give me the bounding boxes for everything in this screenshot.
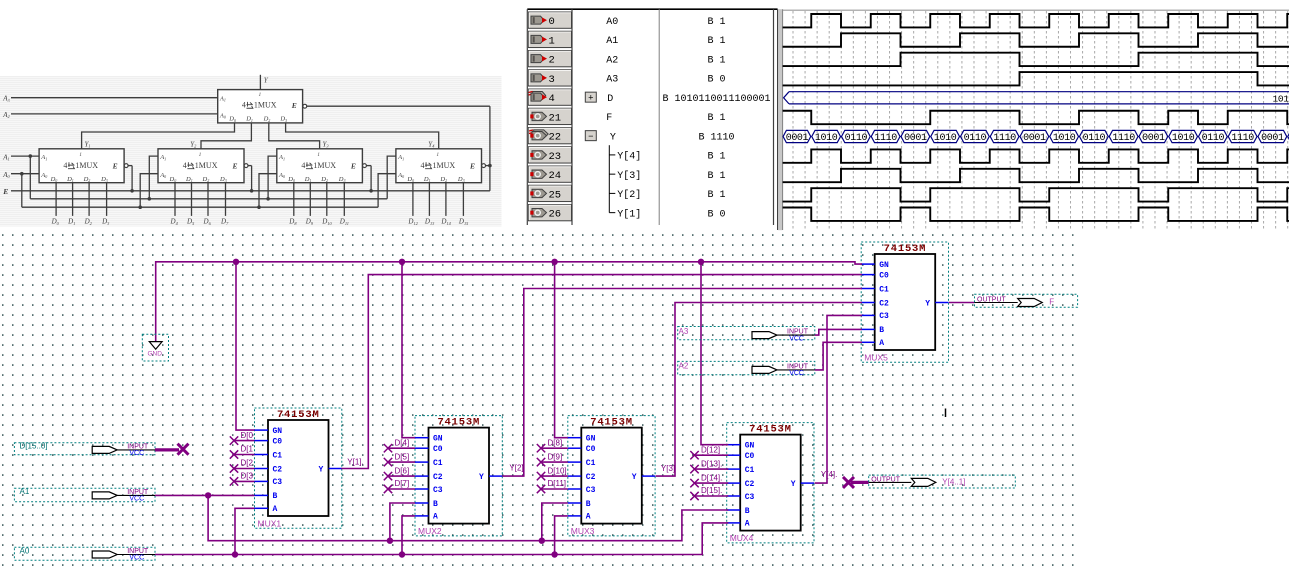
svg-text:C2: C2 <box>433 473 443 482</box>
svg-text:B 1110: B 1110 <box>698 132 734 143</box>
svg-text:A3: A3 <box>606 75 618 86</box>
svg-text:A3: A3 <box>679 327 689 336</box>
svg-text:VCC: VCC <box>789 335 804 342</box>
svg-text:B: B <box>586 500 591 509</box>
svg-text:1010: 1010 <box>1053 133 1076 144</box>
svg-text:D[6]: D[6] <box>395 466 410 475</box>
svg-text:C0: C0 <box>745 452 755 461</box>
svg-text:D[1: D[1 <box>241 445 254 454</box>
svg-text:101011: 101011 <box>1273 93 1289 104</box>
svg-text:MUX4: MUX4 <box>730 533 754 543</box>
svg-text:3: 3 <box>549 74 555 86</box>
svg-text:2: 2 <box>549 55 555 67</box>
svg-text:25: 25 <box>549 189 562 201</box>
svg-text:C1: C1 <box>433 459 443 468</box>
svg-text:0110: 0110 <box>1202 133 1225 144</box>
svg-text:Y[1].: Y[1]. <box>347 458 363 467</box>
svg-text:VCC: VCC <box>789 370 804 377</box>
svg-text:4: 4 <box>301 161 305 170</box>
svg-text:F: F <box>1049 298 1054 307</box>
svg-text:23: 23 <box>549 151 562 163</box>
svg-text:B 1: B 1 <box>707 152 725 163</box>
svg-text:B 0: B 0 <box>707 75 725 86</box>
svg-text:Y: Y <box>319 466 324 475</box>
svg-text:A0: A0 <box>606 17 618 28</box>
svg-text:D[7]: D[7] <box>395 479 410 488</box>
svg-text:Y: Y <box>925 300 930 309</box>
svg-text:0110: 0110 <box>845 133 868 144</box>
svg-text:F: F <box>606 113 612 124</box>
svg-text:1: 1 <box>549 35 555 47</box>
svg-text:4: 4 <box>549 93 555 105</box>
svg-text:Y: Y <box>791 480 796 489</box>
svg-text:Y: Y <box>479 473 484 482</box>
svg-text:1MUX: 1MUX <box>313 161 336 170</box>
svg-text:C2: C2 <box>586 473 596 482</box>
svg-text:GN: GN <box>745 442 755 451</box>
svg-text:Y: Y <box>632 473 637 482</box>
svg-text:B: B <box>433 500 438 509</box>
svg-text:B 1: B 1 <box>707 17 725 28</box>
svg-text:A: A <box>586 513 591 522</box>
svg-text:E: E <box>291 101 297 110</box>
svg-text:Y[2]: Y[2] <box>509 463 523 472</box>
svg-text:D[15..0]: D[15..0] <box>20 442 48 451</box>
svg-text:Y[1]: Y[1] <box>617 208 641 220</box>
svg-text:1MUX: 1MUX <box>75 161 98 170</box>
svg-text:C1: C1 <box>586 459 596 468</box>
svg-text:+: + <box>588 93 593 103</box>
svg-text:C1: C1 <box>879 285 889 294</box>
svg-text:Y: Y <box>610 132 616 143</box>
svg-text:1: 1 <box>317 153 320 158</box>
svg-text:1MUX: 1MUX <box>433 161 456 170</box>
svg-text:74153M: 74153M <box>884 243 927 255</box>
svg-text:0: 0 <box>549 16 555 28</box>
svg-text:Y[4]: Y[4] <box>617 151 641 163</box>
svg-text:C0: C0 <box>433 445 443 454</box>
svg-text:C2: C2 <box>745 480 755 489</box>
svg-text:C3: C3 <box>586 486 596 495</box>
svg-text:E: E <box>469 161 475 170</box>
svg-text:0110: 0110 <box>964 133 987 144</box>
svg-text:A1: A1 <box>606 36 618 47</box>
svg-text:GN: GN <box>433 435 443 444</box>
svg-text:B: B <box>879 326 884 335</box>
svg-text:C3: C3 <box>433 486 443 495</box>
svg-text:D[8]: D[8] <box>548 438 563 447</box>
svg-text:1MUX: 1MUX <box>254 101 277 110</box>
svg-text:Y[2]: Y[2] <box>617 189 641 201</box>
svg-text:C1: C1 <box>273 451 283 460</box>
svg-text:D[9]: D[9] <box>548 452 563 461</box>
svg-text:MUX2: MUX2 <box>418 526 442 536</box>
svg-text:C1: C1 <box>745 466 755 475</box>
svg-text:A: A <box>745 520 750 529</box>
svg-text:D[2: D[2 <box>241 459 254 468</box>
svg-text:74153M: 74153M <box>437 417 480 429</box>
svg-text:A: A <box>879 339 884 348</box>
svg-text:GN: GN <box>273 427 283 436</box>
svg-text:A0: A0 <box>20 546 30 555</box>
svg-text:1110: 1110 <box>1112 133 1135 144</box>
svg-text:D[12]: D[12] <box>701 445 720 454</box>
svg-text:74153M: 74153M <box>277 409 320 421</box>
svg-text:E: E <box>350 161 356 170</box>
svg-text:1110: 1110 <box>993 133 1016 144</box>
svg-text:E: E <box>232 161 238 170</box>
svg-text:D[15].: D[15]. <box>701 486 722 495</box>
svg-text:74153M: 74153M <box>590 417 633 429</box>
svg-text:B 1: B 1 <box>707 171 725 182</box>
svg-text:A1: A1 <box>20 487 30 496</box>
svg-text:B 1: B 1 <box>707 190 725 201</box>
svg-text:B: B <box>273 492 278 501</box>
svg-text:B 1010110011100001: B 1010110011100001 <box>662 94 770 105</box>
svg-text:GN: GN <box>879 261 889 270</box>
svg-text:D[5]: D[5] <box>395 452 410 461</box>
svg-text:1: 1 <box>79 153 82 158</box>
svg-text:E: E <box>112 161 118 170</box>
svg-text:C3: C3 <box>273 478 283 487</box>
svg-text:C0: C0 <box>273 437 283 446</box>
svg-text:0001: 0001 <box>1261 133 1284 144</box>
svg-text:0001: 0001 <box>1023 133 1046 144</box>
svg-text:C2: C2 <box>879 299 889 308</box>
svg-text:1110: 1110 <box>1231 133 1254 144</box>
svg-text:22: 22 <box>549 132 562 144</box>
svg-text:4: 4 <box>63 161 67 170</box>
svg-text:B 0: B 0 <box>707 209 725 220</box>
svg-text:Y[3]: Y[3] <box>661 464 675 473</box>
svg-text:D[4]: D[4] <box>395 438 410 447</box>
svg-text:D[11]: D[11] <box>548 479 567 488</box>
svg-text:D[3: D[3 <box>241 472 254 481</box>
svg-text:0110: 0110 <box>1083 133 1106 144</box>
svg-text:4: 4 <box>183 161 187 170</box>
svg-text:1010: 1010 <box>815 133 838 144</box>
svg-text:1: 1 <box>437 153 440 158</box>
svg-text:OUTPUT: OUTPUT <box>871 476 901 483</box>
svg-text:Y[3]: Y[3] <box>617 170 641 182</box>
svg-text:1: 1 <box>199 153 202 158</box>
svg-text:4: 4 <box>242 101 246 110</box>
svg-text:GN: GN <box>586 435 596 444</box>
svg-text:D[10]: D[10] <box>548 466 567 475</box>
svg-text:21: 21 <box>549 112 562 124</box>
svg-text:MUX5: MUX5 <box>864 352 888 362</box>
svg-text:D[14].: D[14]. <box>701 473 722 482</box>
svg-text:A: A <box>433 513 438 522</box>
svg-text:C0: C0 <box>586 445 596 454</box>
svg-text:Y[4..1]: Y[4..1] <box>942 478 965 487</box>
svg-text:1010: 1010 <box>1172 133 1195 144</box>
svg-text:26: 26 <box>549 209 562 221</box>
svg-text:D: D <box>607 94 613 105</box>
svg-text:C0: C0 <box>879 271 889 280</box>
svg-text:GND: GND <box>148 351 163 358</box>
svg-text:0001: 0001 <box>1142 133 1165 144</box>
svg-text:D[0: D[0 <box>241 431 254 440</box>
svg-text:MUX1: MUX1 <box>258 518 282 528</box>
svg-text:74153M: 74153M <box>749 424 792 436</box>
svg-text:OUTPUT: OUTPUT <box>977 297 1007 304</box>
svg-text:E: E <box>2 187 8 196</box>
svg-text:B 1: B 1 <box>707 36 725 47</box>
svg-text:4: 4 <box>421 161 425 170</box>
svg-text:−: − <box>588 132 593 142</box>
svg-text:VCC: VCC <box>129 555 144 562</box>
svg-text:VCC: VCC <box>129 450 144 457</box>
svg-text:1: 1 <box>259 93 262 98</box>
svg-text:24: 24 <box>549 170 562 182</box>
svg-text:C3: C3 <box>879 312 889 321</box>
svg-text:1110: 1110 <box>874 133 897 144</box>
svg-text:1010: 1010 <box>934 133 957 144</box>
svg-text:0001: 0001 <box>904 133 927 144</box>
svg-text:VCC: VCC <box>129 496 144 503</box>
svg-text:1MUX: 1MUX <box>195 161 218 170</box>
svg-text:A2: A2 <box>606 55 618 66</box>
svg-text:C2: C2 <box>273 465 283 474</box>
svg-text:MUX3: MUX3 <box>571 526 595 536</box>
svg-text:Y[4].: Y[4]. <box>821 470 837 479</box>
svg-text:A2: A2 <box>679 362 689 371</box>
svg-text:B 1: B 1 <box>707 55 725 66</box>
svg-text:0001: 0001 <box>786 133 809 144</box>
svg-text:C3: C3 <box>745 493 755 502</box>
svg-text:D[13].: D[13]. <box>701 459 722 468</box>
svg-text:B: B <box>745 507 750 516</box>
svg-text:B 1: B 1 <box>707 113 725 124</box>
svg-text:A: A <box>273 505 278 514</box>
